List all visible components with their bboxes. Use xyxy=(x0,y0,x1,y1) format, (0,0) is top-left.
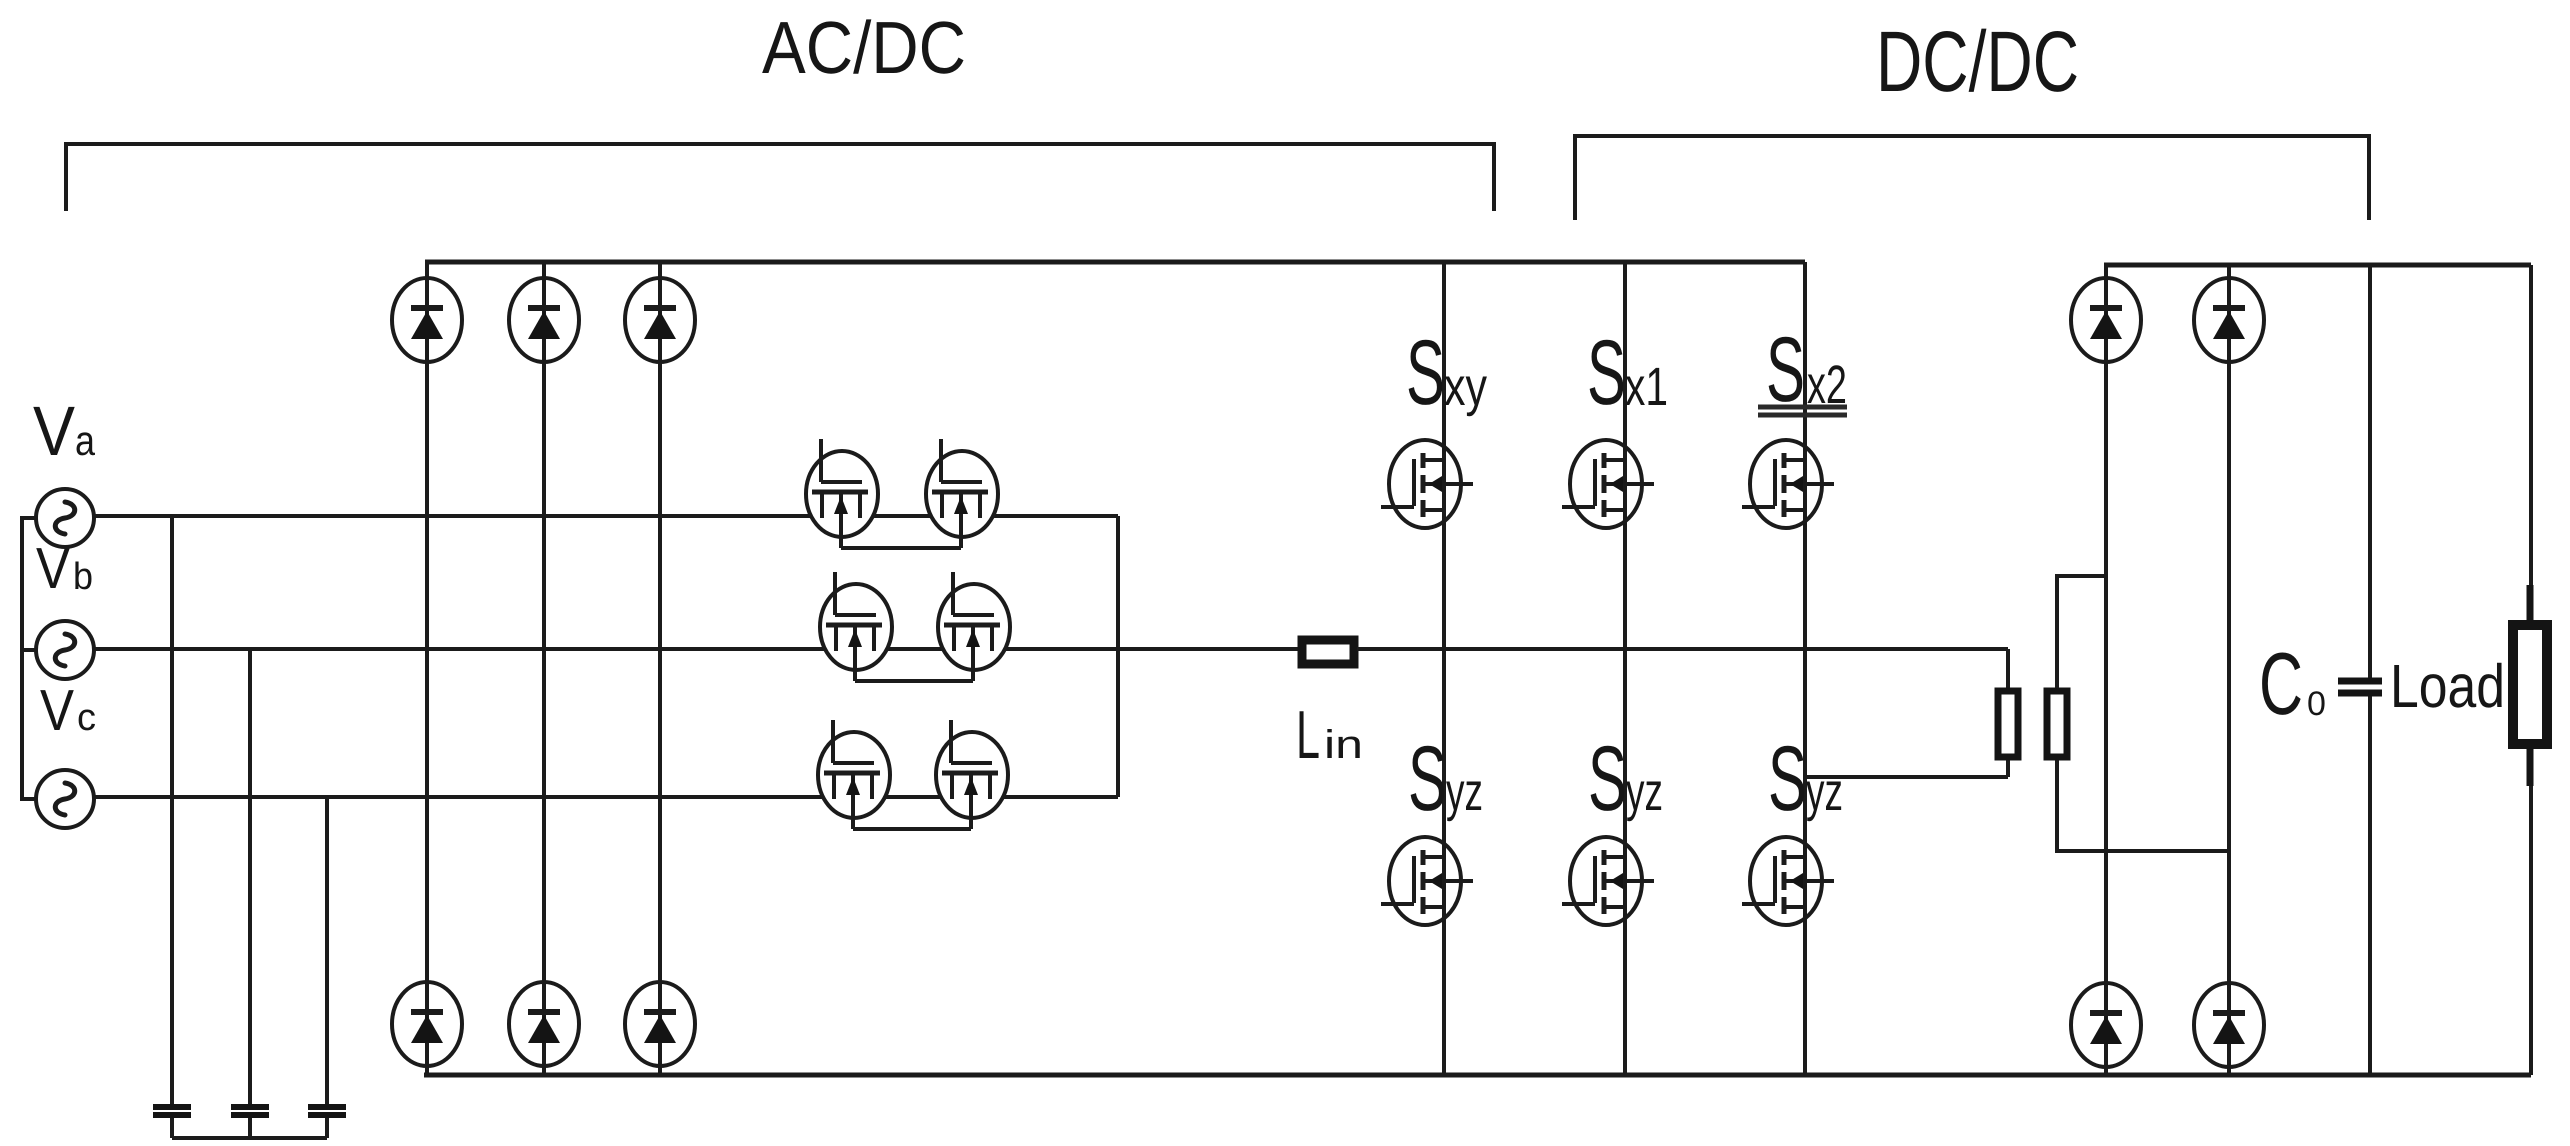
transistor Sx1 xyxy=(1562,440,1654,528)
wire rectifier column 1 xyxy=(425,262,429,1075)
transformer primary winding xyxy=(1998,691,2018,757)
diode D5 xyxy=(509,982,579,1066)
svg-text:S: S xyxy=(1587,322,1626,424)
wire link row C xyxy=(853,827,971,831)
wire filter column B xyxy=(248,649,252,1138)
svg-text:xy: xy xyxy=(1444,357,1487,417)
wire leg 2 xyxy=(1623,262,1627,1075)
diode D1 xyxy=(392,278,462,362)
wire output leg 2 xyxy=(2227,265,2231,1075)
wire neutral left xyxy=(22,518,36,799)
svg-text:S: S xyxy=(1588,728,1627,830)
wire top dc bus right xyxy=(2104,263,2531,268)
wire bottom dc bus xyxy=(424,1073,2531,1078)
wire phase A xyxy=(94,514,1118,518)
capacitor filter A xyxy=(153,1107,191,1115)
wire filter column A xyxy=(170,516,174,1138)
wire link row A xyxy=(841,546,961,550)
svg-text:S: S xyxy=(1406,322,1445,424)
diode D4 xyxy=(392,982,462,1066)
svg-text:S: S xyxy=(1768,728,1807,830)
wire filter bottom join xyxy=(172,1136,327,1140)
transistor Syz2 xyxy=(1562,837,1654,925)
diode D9 xyxy=(2071,983,2141,1067)
svg-text:c: c xyxy=(77,697,96,739)
wire output right xyxy=(2529,265,2533,1075)
diode D8 xyxy=(2194,278,2264,362)
diode D2 xyxy=(509,278,579,362)
wire primary top xyxy=(2006,649,2010,688)
wire output leg 1 xyxy=(2104,265,2108,1075)
capacitor filter C xyxy=(308,1107,346,1115)
svg-text:Load: Load xyxy=(2390,652,2505,720)
wire rectifier column 2 xyxy=(542,262,546,1075)
wire link inductor to legs xyxy=(1357,647,2008,651)
wire load stubs xyxy=(2527,585,2534,786)
wire phase C xyxy=(94,795,1118,799)
source Vb xyxy=(36,621,94,679)
switch S-a1 xyxy=(806,439,878,548)
svg-text:in: in xyxy=(1324,723,1363,767)
transistor Syz3 xyxy=(1742,837,1834,925)
transformer secondary winding xyxy=(2047,691,2067,757)
svg-text:C: C xyxy=(2259,634,2303,733)
diode D6 xyxy=(625,982,695,1066)
inductor Lin xyxy=(1302,640,1354,664)
diode D3 xyxy=(625,278,695,362)
transistor Syz1 xyxy=(1381,837,1473,925)
switch S-c2 xyxy=(936,720,1008,829)
wire rectifier column 3 xyxy=(658,262,662,1075)
wire primary bottom xyxy=(1805,760,2008,777)
wire leg 3 xyxy=(1803,262,1807,1075)
switch S-b1 xyxy=(820,572,892,681)
wire phase B xyxy=(94,647,1298,651)
DC/DC section bracket xyxy=(1575,136,2369,220)
wire top dc bus left xyxy=(425,260,1805,265)
svg-text:AC/DC: AC/DC xyxy=(762,6,966,89)
switch S-b2 xyxy=(938,572,1010,681)
svg-text:a: a xyxy=(75,417,96,464)
source Vc xyxy=(36,770,94,828)
svg-text:0: 0 xyxy=(2307,685,2326,723)
svg-text:yz: yz xyxy=(1626,762,1663,822)
switch S-c1 xyxy=(818,720,890,829)
svg-text:x1: x1 xyxy=(1625,357,1668,417)
svg-text:L: L xyxy=(1296,697,1320,773)
wire filter column C xyxy=(325,797,329,1138)
svg-text:V: V xyxy=(40,678,74,743)
svg-text:V: V xyxy=(33,392,75,470)
diode D7 xyxy=(2071,278,2141,362)
wire matrix rail xyxy=(1116,516,1120,797)
switch S-a2 xyxy=(926,439,998,548)
svg-text:b: b xyxy=(73,556,93,598)
svg-text:yz: yz xyxy=(1446,762,1483,822)
transistor Sx2 xyxy=(1742,440,1834,528)
transistor Sxy xyxy=(1381,440,1473,528)
source Va xyxy=(36,489,94,547)
wire secondary top xyxy=(2057,576,2106,688)
capacitor C0 xyxy=(2338,681,2382,693)
wire leg 1 xyxy=(1442,262,1446,1075)
svg-text:DC/DC: DC/DC xyxy=(1876,14,2079,110)
resistor Load xyxy=(2513,625,2547,744)
wire secondary bottom xyxy=(2057,760,2229,851)
wire output cap leg xyxy=(2368,265,2372,1075)
svg-text:yz: yz xyxy=(1806,762,1843,822)
wire link row B xyxy=(855,679,973,683)
diode D10 xyxy=(2194,983,2264,1067)
label Sx2 underline xyxy=(1758,407,1847,415)
capacitor filter B xyxy=(231,1107,269,1115)
svg-text:S: S xyxy=(1408,728,1447,830)
AC/DC section bracket xyxy=(66,144,1494,211)
